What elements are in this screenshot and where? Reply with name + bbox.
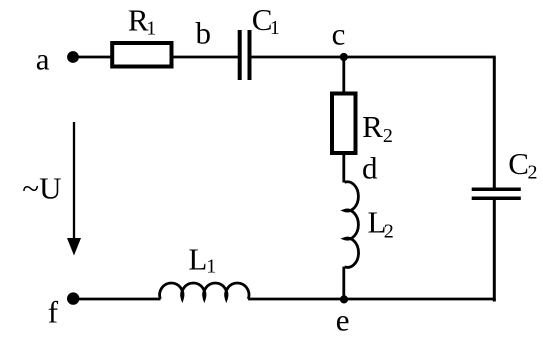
- wire R2 to L2: [342, 155, 345, 183]
- capacitor C2: [472, 187, 521, 191]
- svg-text:c: c: [332, 16, 346, 51]
- svg-text:2: 2: [528, 162, 538, 184]
- wire R1 to C1: [174, 56, 239, 59]
- source arrow ~U: [73, 122, 75, 240]
- resistor R1: [112, 43, 171, 67]
- inductor L1: [160, 283, 249, 299]
- wire a to R1: [73, 56, 112, 59]
- wire L1 to bottom-right corner: [248, 298, 496, 301]
- svg-text:1: 1: [270, 17, 280, 39]
- wire C1 to top-right corner: [252, 56, 496, 59]
- capacitor C1: [238, 30, 242, 80]
- svg-text:a: a: [36, 42, 50, 77]
- wire L2 to e: [342, 267, 345, 299]
- node e: [340, 295, 348, 303]
- svg-text:d: d: [362, 151, 378, 186]
- svg-text:b: b: [196, 16, 212, 51]
- wire c to R2: [342, 57, 345, 93]
- svg-text:f: f: [48, 295, 59, 330]
- node f: [67, 292, 79, 304]
- right wire top segment: [493, 57, 496, 188]
- resistor R2: [332, 94, 356, 154]
- svg-text:e: e: [336, 303, 350, 338]
- svg-text:1: 1: [206, 256, 216, 278]
- right wire bottom segment: [493, 200, 496, 302]
- svg-text:~U: ~U: [22, 171, 61, 206]
- svg-text:C: C: [508, 146, 529, 181]
- node c: [340, 53, 348, 61]
- wire f to L1: [73, 298, 161, 301]
- node a: [67, 51, 79, 63]
- svg-text:2: 2: [383, 125, 393, 147]
- svg-text:1: 1: [146, 18, 156, 40]
- svg-text:R: R: [362, 109, 383, 144]
- svg-text:2: 2: [384, 220, 394, 242]
- svg-text:L: L: [188, 242, 207, 277]
- inductor L2: [345, 182, 359, 268]
